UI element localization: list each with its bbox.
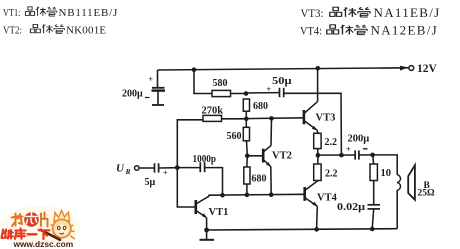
speaker B cone [408, 165, 415, 200]
label 680 (vertical lower) [252, 174, 267, 185]
capacitor 1000p [200, 162, 204, 172]
node: rail junction above VT3 [316, 66, 321, 71]
resistor 680 (vertical, upper) [243, 99, 249, 111]
node E: output node [316, 153, 321, 158]
node: VT1 emitter / ground junction [204, 228, 209, 233]
transistor VT1 [196, 196, 209, 218]
svg-text:VT4: VT4 [317, 193, 338, 204]
label 12V [417, 63, 438, 75]
resistor 680 (vertical, lower) [244, 156, 250, 184]
svg-text:5μ: 5μ [145, 177, 156, 188]
svg-text:www.dzsc.com: www.dzsc.com [13, 239, 74, 249]
wire: 200u to node F [359, 154, 373, 156]
VT4 emitter arrow [312, 202, 317, 207]
label 580 (horizontal resistor) [213, 78, 228, 89]
power terminal 12V [400, 66, 408, 71]
wire: VT2 emitter down to mid rail [270, 166, 272, 195]
wire: input node to 1000p [177, 167, 200, 169]
label 2.2 (upper) [325, 137, 338, 148]
watermark yi (red) [28, 233, 37, 235]
wire: input to 5u [139, 167, 154, 169]
transistor VT2 [247, 146, 271, 167]
VT2 emitter arrow [266, 162, 271, 167]
watermark mascot head [53, 219, 71, 237]
header glyphs jing-ti-guan line2 left [30, 24, 64, 33]
node: VT2 collector tap on VT3 base line [269, 116, 274, 121]
svg-text:580: 580 [213, 78, 228, 89]
svg-text:NA11EB/J: NA11EB/J [374, 5, 441, 20]
wire: 560 bottom to node D [246, 141, 249, 156]
wire: 10 to 0.02u [373, 181, 375, 205]
watermark mascot eyes and mouth [58, 226, 66, 234]
node B: 680h / 680v / 50u junction [244, 91, 249, 96]
label 680 (vertical upper) [253, 101, 268, 112]
label 560 [227, 131, 242, 142]
wire: ground rail (bottom) [207, 229, 398, 230]
watermark ku (red) [15, 228, 26, 239]
svg-text:VT2:: VT2: [3, 24, 22, 36]
label - of 200u [145, 97, 150, 99]
label + of 5u [163, 169, 168, 178]
wire: VT3 emitter to 2.2 upper [316, 130, 319, 133]
header glyphs jing-ti-guan line1 right [330, 7, 370, 17]
svg-text:VT3: VT3 [316, 113, 336, 124]
wire: 5u to input node [159, 167, 178, 169]
label B [424, 181, 431, 191]
svg-text:+: + [267, 85, 272, 94]
resistor 2.2 (upper) [314, 133, 321, 148]
svg-text:VT4:: VT4: [300, 24, 322, 38]
svg-text:+: + [346, 145, 351, 154]
watermark red ball [24, 212, 39, 227]
svg-text:200μ: 200μ [122, 89, 143, 100]
ground [200, 230, 215, 240]
label VT3 [316, 113, 336, 124]
watermark zhao (orange) [12, 214, 23, 227]
capacitor 200u (supply filter) [152, 70, 166, 105]
wire: node F to speaker column [373, 155, 398, 175]
node: VT4 emitter on ground rail [314, 227, 319, 232]
wire: 2.2 upper to node E [317, 149, 319, 156]
watermark pian (orange) [41, 213, 48, 227]
svg-text:2.2: 2.2 [325, 137, 338, 148]
svg-text:NB111EB/J: NB111EB/J [59, 7, 119, 19]
label + of 200u [149, 75, 154, 84]
wire: mid rail (VT1 collector to VT4 base) [209, 194, 304, 196]
svg-text:VT3:: VT3: [301, 6, 324, 20]
watermark www.dzsc.com [13, 239, 74, 249]
wire: 680 to node B [231, 93, 247, 95]
label VT4 [317, 193, 338, 204]
wire: node B to 50u [246, 92, 279, 94]
label - of 200u output [363, 148, 368, 150]
watermark mascot ear tufts [51, 225, 76, 240]
wire: VT3 base line [246, 117, 303, 120]
header glyphs jing-ti-guan line1 left [25, 7, 56, 16]
svg-text:+: + [149, 75, 154, 84]
wire: +12V top supply rail [158, 68, 410, 70]
node: 0.02u on ground rail [370, 227, 375, 232]
header glyphs jing-ti-guan line2 right [327, 25, 367, 35]
label VT1 [209, 207, 229, 218]
wire: rail down to VT3 collector [317, 68, 319, 101]
wire: 2.2 lower to VT4 collector [316, 180, 319, 182]
node D: 560/VT2-base/680 junction [245, 154, 250, 159]
watermark pen diagonal [41, 230, 61, 240]
resistor 10 [370, 155, 377, 181]
node F: 10 ohm / speaker junction [370, 153, 375, 158]
transistor VT4 [305, 181, 318, 207]
svg-text:50μ: 50μ [272, 76, 292, 87]
svg-text:VT1:: VT1: [3, 7, 21, 19]
input terminal [135, 166, 140, 171]
node: 680 lower junction on mid rail [245, 193, 250, 198]
svg-text:U: U [116, 163, 125, 175]
label 5u [145, 177, 156, 188]
svg-text:200μ: 200μ [348, 134, 370, 145]
label 200u [122, 89, 143, 100]
svg-text:VT1: VT1 [209, 207, 229, 218]
wire: 270k left lead down to input node [177, 120, 203, 168]
speaker B coil [397, 175, 400, 190]
capacitor 0.02u [368, 205, 381, 209]
svg-text:NK001E: NK001E [66, 24, 106, 36]
watermark mascot face patch [55, 224, 68, 235]
transistor VT3 [304, 102, 318, 131]
label 1000p [193, 154, 217, 165]
wire: 50u right, bootstrap down to output node [284, 93, 342, 155]
svg-text:680: 680 [253, 101, 268, 112]
wire: 1000p right lead down to mid rail [205, 168, 223, 196]
label 50u [272, 76, 292, 87]
node: junction on rail above 680 [192, 67, 197, 72]
svg-text:12V: 12V [417, 63, 438, 75]
label 0.02u [337, 202, 365, 213]
resistor 2.2 (lower) [314, 155, 321, 180]
label 10 [381, 168, 392, 179]
svg-text:2.2: 2.2 [325, 169, 338, 180]
capacitor 5u [155, 163, 159, 172]
capacitor 50u [280, 88, 284, 97]
watermark wei (red) [2, 230, 14, 239]
svg-text:680: 680 [252, 174, 267, 185]
label 200u (output cap) [348, 134, 370, 145]
label VT2 [272, 151, 292, 162]
label + of 200u output [346, 145, 351, 154]
input label UR [116, 163, 131, 177]
resistor 580 (horizontal, top) [212, 90, 231, 96]
svg-text:0.02μ: 0.02μ [337, 202, 365, 213]
wire: VT1 emitter down to ground rail [206, 218, 208, 230]
header text VT1 line [3, 5, 440, 38]
watermark xin strokes on ball [26, 213, 37, 224]
watermark glow [0, 206, 80, 248]
watermark xia (red) [39, 230, 50, 239]
svg-text:R: R [125, 167, 131, 176]
node: input node [175, 165, 180, 170]
label 270k [202, 106, 224, 117]
wire: 680 lower bottom lead [246, 184, 248, 195]
wire: 0.02u to ground rail [372, 209, 374, 229]
wire: 680v bottom to node C [245, 111, 247, 119]
wire: speaker column down to ground rail [396, 190, 398, 229]
wire: VT4 emitter to ground rail [316, 206, 319, 229]
svg-text:NA12EB/J: NA12EB/J [371, 23, 438, 38]
VT1 emitter arrow [202, 213, 207, 218]
label 25 ohm [418, 188, 436, 198]
wire: VT2 collector up to VT3 base line [270, 118, 273, 145]
node C: 270k/680/560/VT3-base junction [244, 117, 249, 122]
resistor 270k [203, 115, 222, 121]
wire: 270k right lead to node C [222, 118, 247, 120]
svg-text:560: 560 [227, 131, 242, 142]
svg-text:VT2: VT2 [272, 151, 292, 162]
node: bootstrap junction on output wire [339, 153, 344, 158]
wire: rail junction down to 680 row [194, 70, 212, 94]
svg-text:+: + [163, 169, 168, 178]
node: 1000p junction on mid rail [220, 193, 225, 198]
svg-text:25Ω: 25Ω [418, 188, 436, 198]
label 2.2 (lower) [325, 169, 338, 180]
VT3 emitter arrow [312, 126, 317, 131]
capacitor 200u (output) [355, 150, 359, 159]
wire: input node down to VT1 base [177, 168, 195, 207]
wire: node E to 200u [317, 154, 354, 156]
node: VT2 emitter junction on mid rail [269, 192, 274, 197]
label + of 50u [267, 85, 272, 94]
svg-text:10: 10 [381, 168, 392, 179]
resistor 560 [243, 119, 249, 141]
watermark mascot crown [54, 211, 70, 222]
